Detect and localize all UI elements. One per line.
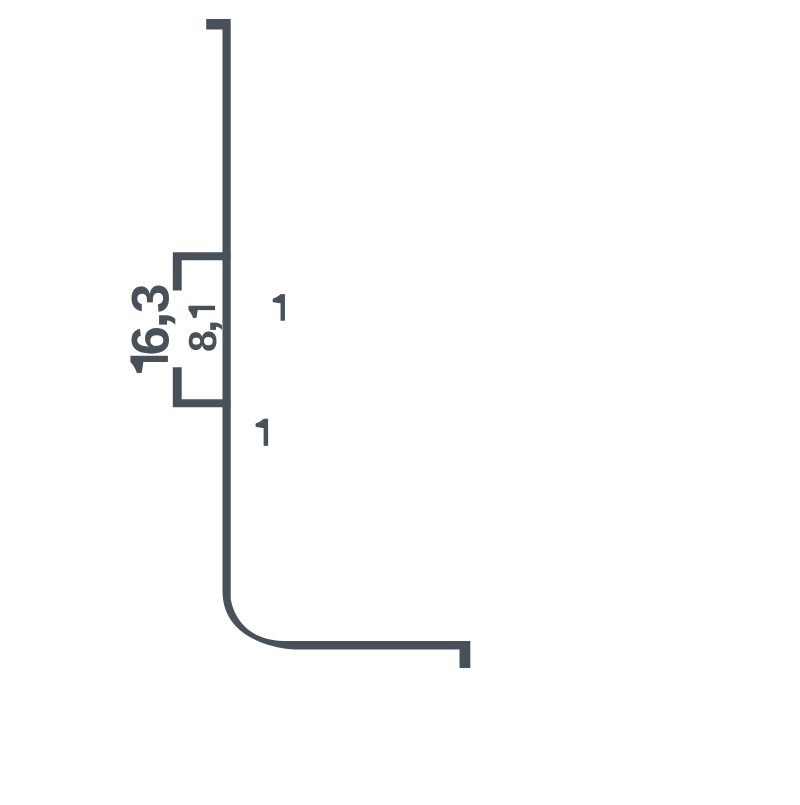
dimension label 16,3 (rotated 90 ccw)	[119, 284, 180, 373]
thickness label 1 (lower, at web)	[256, 419, 269, 446]
svg-text:,: ,	[181, 319, 225, 333]
dimension bracket: lower spine and bottom arm	[173, 367, 231, 407]
svg-text:8: 8	[182, 330, 225, 352]
profile cross-section: top hem, vertical web, bottom bend, horizontal flange, end lip	[206, 19, 470, 668]
thickness label 1 (upper, at web)	[273, 294, 285, 321]
dimension bracket: top arm and upper spine	[173, 252, 231, 290]
svg-text:3: 3	[122, 284, 181, 313]
dimension label 8,1 (rotated 90 ccw)	[181, 306, 225, 352]
svg-text:6: 6	[122, 326, 181, 355]
